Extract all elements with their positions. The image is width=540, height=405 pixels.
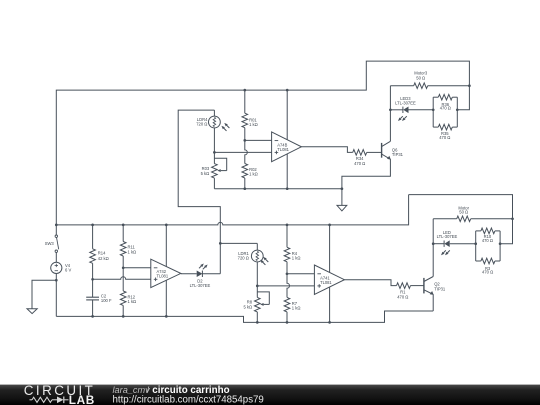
resistor R4 1kΩ [284, 225, 300, 274]
svg-text:/: / [147, 385, 150, 395]
lower LED emission arrows [441, 250, 450, 255]
resistor R7 1kΩ (vertical hops + wire) [284, 274, 300, 323]
op-amp A741 TL081 [314, 225, 344, 323]
wire parallel block right side [456, 97, 458, 127]
svg-text:100 F: 100 F [101, 298, 112, 303]
node block right junction [456, 108, 459, 111]
node junction Motor3 right / +V [468, 84, 471, 87]
svg-text:lara_cmv: lara_cmv [113, 385, 152, 395]
node LDR1 branch junction [219, 242, 222, 245]
resistor R01 1kΩ [242, 90, 258, 140]
node A74B rail top [286, 89, 289, 92]
svg-text:TIP31: TIP31 [434, 287, 446, 292]
node LED row lower [432, 242, 435, 245]
node lower block right junction [499, 242, 502, 245]
wire non-inverting input A74B [214, 151, 271, 153]
resistor R36 470Ω (top branch of parallel pair) [433, 94, 457, 110]
svg-text:50 Ω: 50 Ω [459, 209, 468, 214]
node C2 bottom [91, 315, 94, 318]
wire C2 to + input A742 (hops R11/R12) [93, 277, 151, 280]
node V4 negative junction [55, 279, 58, 282]
svg-text:470 Ω: 470 Ω [482, 270, 493, 275]
svg-text:50 Ω: 50 Ω [416, 75, 425, 80]
capacitor C2 100F [86, 279, 112, 316]
node R01 top on +V rail [243, 89, 246, 92]
wire A741 output [344, 280, 396, 286]
wire lower block right side [499, 231, 501, 261]
op-amp A74B TL081 [272, 90, 302, 189]
node LDR1 bottom / non-inverting node [256, 285, 259, 288]
node A74B rail bottom [286, 187, 289, 190]
wire V4 to ground [32, 280, 56, 309]
wire parallel block left side [432, 97, 434, 127]
node A741 rail top [328, 224, 331, 227]
svg-text:TL081: TL081 [157, 274, 169, 279]
resistor R12 1kΩ [120, 268, 136, 317]
wire lower block left side [475, 231, 477, 261]
node A742 rail top [165, 224, 168, 227]
wire LDR net to LDR1 [220, 242, 257, 244]
resistor R34 470Ω [353, 150, 382, 167]
svg-text:1 kΩ: 1 kΩ [292, 256, 301, 261]
resistor R10 470Ω (top branch) [476, 228, 500, 243]
voltage source V4 6V [51, 262, 72, 316]
wire non-inverting input A741 [257, 285, 314, 287]
wire lower motor +V loop [409, 195, 513, 244]
resistor R35 470Ω (bottom branch of parallel pair) [433, 124, 457, 140]
wire +V rail lower (hops LDR net at x=220.3) [56, 195, 408, 225]
node battery branch junction [55, 224, 58, 227]
LED LED LTL-307EE (lower) [433, 230, 476, 247]
svg-text:TIP31: TIP31 [392, 152, 404, 157]
node R14 top [91, 224, 94, 227]
svg-text:TL081: TL081 [320, 280, 332, 285]
node lower block left junction [474, 242, 477, 245]
svg-text:LAB: LAB [69, 393, 95, 405]
wire ground rail upper [214, 188, 342, 190]
LDR4 incident light arrows [221, 123, 229, 131]
svg-text:LTL-307EE: LTL-307EE [190, 283, 211, 288]
svg-text:470 Ω: 470 Ω [482, 238, 493, 243]
photoresistor LDR1 720Ω [238, 243, 264, 286]
resistor R3 470Ω (bottom branch) [476, 258, 500, 275]
node R7 bottom [286, 321, 289, 324]
svg-text:470 Ω: 470 Ω [440, 106, 451, 111]
wire Q2 collector riser [432, 219, 434, 277]
transistor Q6 TIP31 [382, 141, 404, 159]
potentiometer R8 5kΩ [243, 286, 269, 323]
svg-text:1 kΩ: 1 kΩ [249, 172, 258, 177]
svg-text:R14: R14 [98, 250, 106, 255]
resistor R02 1kΩ (vertical hops + wire) [242, 140, 258, 188]
LED3 emission arrows [398, 116, 407, 121]
svg-text:720 Ω: 720 Ω [196, 122, 207, 127]
LED D2 LTL-307EE [190, 271, 221, 288]
svg-text:1 kΩ: 1 kΩ [128, 250, 137, 255]
wire +V rail upper (battery top to motor feed) [56, 61, 469, 225]
svg-text:1 kΩ: 1 kΩ [128, 299, 137, 304]
node R11 top [122, 224, 125, 227]
svg-text:1 kΩ: 1 kΩ [292, 306, 301, 311]
resistor R14 42kΩ [90, 225, 109, 279]
svg-text:http://circuitlab.com/ccxt7485: http://circuitlab.com/ccxt74854ps79 [113, 395, 264, 405]
resistor Motor 50Ω [433, 205, 512, 221]
potentiometer R03 5kΩ [201, 152, 227, 188]
resistor R1 470Ω [397, 283, 424, 300]
node Motor right junction [511, 217, 514, 220]
svg-text:1 kΩ: 1 kΩ [249, 122, 258, 127]
switch SW3 [45, 225, 59, 262]
svg-text:TL081: TL081 [277, 147, 289, 152]
node R4 top [286, 224, 289, 227]
svg-text:470 Ω: 470 Ω [354, 161, 365, 166]
transistor Q2 TIP31 [424, 277, 446, 295]
D2 emission arrows [199, 264, 208, 270]
node A742 rail bottom [165, 315, 168, 318]
wire inverting input A741 [287, 273, 314, 275]
node R12 bottom [122, 315, 125, 318]
op-amp A742 TL081 [151, 225, 181, 317]
node LDR4 bottom / non-inverting node [213, 151, 216, 154]
resistor R11 1kΩ [120, 225, 136, 268]
wire D2 cathode to LDR net (vertical riser x=220.3) [178, 110, 220, 274]
ground symbol (battery) [27, 309, 37, 314]
wire Motor3-left / LED3 / Q6 collector riser [389, 86, 391, 142]
svg-text:LTL-307EE: LTL-307EE [437, 234, 458, 239]
node R4 bottom / inverting node [286, 272, 289, 275]
wire Q2 emitter down [432, 294, 434, 311]
wire A74B output [301, 147, 352, 153]
svg-text:LTL-307EE: LTL-307EE [395, 100, 416, 105]
node block left junction [432, 108, 435, 111]
LDR1 incident light arrows [260, 257, 268, 265]
footer bar [0, 383, 540, 405]
svg-text:5 kΩ: 5 kΩ [243, 305, 252, 310]
node A741 rail bottom [328, 321, 331, 324]
node R11 bottom / inverting node [122, 266, 125, 269]
svg-text:42 kΩ: 42 kΩ [98, 256, 109, 261]
svg-text:470 Ω: 470 Ω [397, 295, 408, 300]
ground symbol (upper circuit) [337, 189, 347, 211]
LED LED3 LTL-307EE [390, 96, 433, 113]
wire inverting input A742 [123, 267, 151, 269]
wire A742 output [181, 273, 197, 275]
node R8 bottom [256, 321, 259, 324]
node R14/C2 junction [91, 278, 94, 281]
svg-text:6 V: 6 V [65, 268, 71, 273]
node R02 bottom on ground rail [243, 187, 246, 190]
svg-text:5 kΩ: 5 kΩ [201, 171, 210, 176]
resistor Motor3 50Ω [390, 71, 469, 89]
wire Q6 emitter to ground [342, 159, 391, 188]
svg-text:470 Ω: 470 Ω [439, 135, 450, 140]
photoresistor LDR4 720Ω [196, 110, 220, 152]
svg-text:720 Ω: 720 Ω [238, 256, 249, 261]
wire ground rail lower [56, 311, 433, 322]
svg-text:SW3: SW3 [45, 241, 55, 246]
node R01 bottom / inverting input [243, 139, 246, 142]
wire inverting input A74B [245, 139, 272, 141]
node emitter/ground junction [341, 187, 344, 190]
node junction LED3 row [389, 108, 392, 111]
